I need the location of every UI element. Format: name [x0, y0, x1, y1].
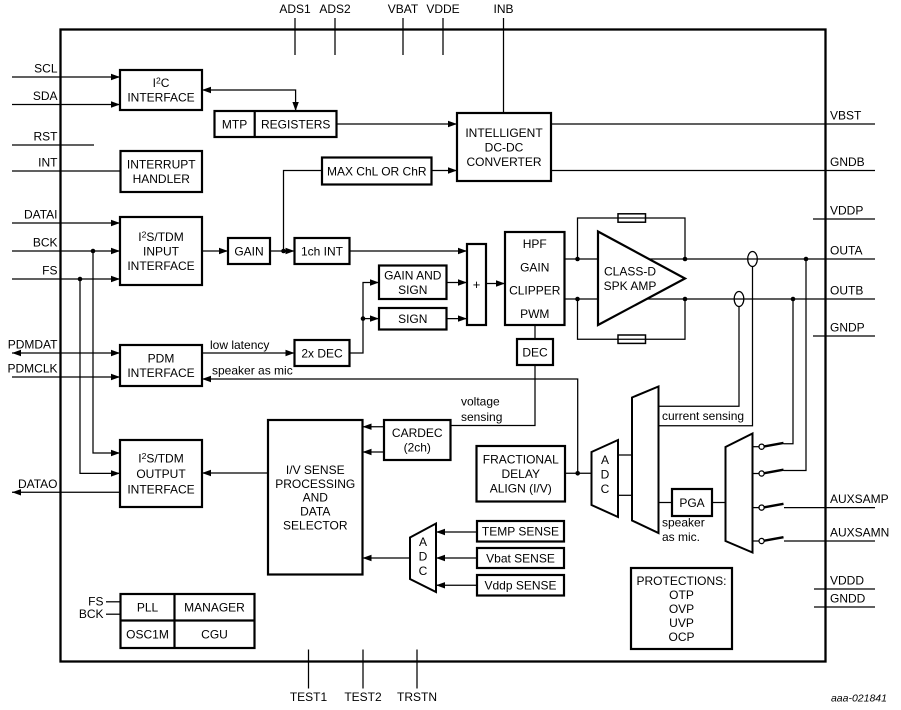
wire mux to PGA [659, 502, 673, 504]
svg-text:PDMCLK: PDMCLK [7, 362, 57, 376]
svg-text:A: A [601, 453, 609, 467]
svg-text:PDMDAT: PDMDAT [8, 338, 58, 352]
svg-text:GNDB: GNDB [830, 155, 865, 169]
svg-text:DEC: DEC [522, 345, 548, 359]
svg-text:INTERRUPT: INTERRUPT [127, 158, 196, 172]
svg-text:SDA: SDA [33, 89, 58, 103]
summing node + [467, 244, 486, 325]
svg-text:INTERFACE: INTERFACE [127, 259, 194, 273]
pin PDMCLK [7, 362, 120, 381]
svg-text:FS: FS [88, 594, 103, 608]
svg-text:speaker: speaker [662, 516, 705, 530]
wire summing node to HPF [486, 280, 505, 286]
svg-text:DC-DC: DC-DC [485, 140, 524, 154]
wire PWM to DEC [534, 325, 536, 339]
mux aux input selector [726, 434, 753, 553]
svg-text:GAIN: GAIN [234, 244, 263, 258]
svg-text:VDDD: VDDD [830, 574, 864, 588]
svg-text:1ch INT: 1ch INT [301, 244, 344, 258]
svg-text:BCK: BCK [79, 607, 104, 621]
svg-text:Vbat SENSE: Vbat SENSE [486, 551, 555, 565]
svg-text:SELECTOR: SELECTOR [283, 518, 348, 532]
pin ADS1 [279, 2, 311, 55]
wire feedback bottom [578, 297, 688, 340]
svg-text:PROTECTIONS:: PROTECTIONS: [636, 574, 726, 588]
adc U2 (sense ADC) [410, 524, 436, 593]
svg-text:SCL: SCL [34, 62, 58, 76]
svg-text:DATAI: DATAI [24, 208, 58, 222]
svg-text:INTELLIGENT: INTELLIGENT [465, 126, 543, 140]
wire FS to output interface [78, 277, 120, 477]
svg-text:I/V SENSE: I/V SENSE [286, 463, 345, 477]
block PGA [672, 489, 712, 516]
wire DEC to CARDEC (voltage sensing) [451, 365, 536, 426]
resistor feedback top [618, 214, 646, 222]
pin GNDD [814, 592, 875, 608]
svg-text:CGU: CGU [201, 628, 228, 642]
block interrupt handler [121, 151, 203, 192]
svg-text:aaa-021841: aaa-021841 [831, 693, 887, 705]
svg-text:VBST: VBST [830, 109, 862, 123]
label speaker as mic. [662, 516, 705, 545]
wire OUTA tap to switch 2 [784, 257, 809, 471]
svg-text:OUTA: OUTA [830, 244, 862, 258]
pin GNDP [813, 321, 875, 337]
block fractional delay align [477, 446, 566, 502]
block intelligent DC-DC converter [457, 113, 551, 181]
svg-text:OVP: OVP [669, 602, 694, 616]
wire PGA to aux mux [712, 502, 726, 504]
pin FS (PLL) [88, 594, 120, 608]
svg-text:DELAY: DELAY [502, 467, 540, 481]
pin GNDB [551, 155, 875, 171]
svg-text:sensing: sensing [461, 410, 502, 424]
wire CARDEC to I/V sense top [363, 424, 385, 430]
pin INB [493, 2, 513, 113]
svg-text:FRACTIONAL: FRACTIONAL [483, 453, 559, 467]
wire current sense OUTA [659, 252, 758, 426]
svg-text:AUXSAMP: AUXSAMP [830, 492, 889, 506]
pin TRSTN [397, 650, 437, 705]
wire I2S input to GAIN [202, 248, 228, 254]
wire CARDEC to I/V sense bottom [363, 449, 385, 455]
svg-text:CONVERTER: CONVERTER [466, 155, 541, 169]
pin DATAO [12, 477, 120, 496]
label current sensing [662, 409, 744, 423]
block TEMP SENSE [477, 521, 564, 542]
svg-text:CLASS-D: CLASS-D [604, 265, 656, 279]
svg-text:current sensing: current sensing [662, 409, 744, 423]
block 1ch INT [295, 238, 350, 264]
wire feedback top [578, 218, 688, 261]
svg-text:OSC1M: OSC1M [126, 628, 169, 642]
wire I/V sense to output interface [202, 470, 268, 476]
block DEC [517, 339, 553, 365]
wire I2C to REGISTERS [202, 87, 299, 111]
svg-text:MTP: MTP [222, 118, 247, 132]
svg-text:DATAO: DATAO [18, 477, 58, 491]
svg-text:CARDEC: CARDEC [392, 426, 443, 440]
block Vbat SENSE [477, 548, 564, 568]
svg-text:low latency: low latency [210, 338, 269, 352]
wire OUTB tap to switch 1 [784, 297, 796, 444]
block protections OTP OVP UVP OCP [631, 568, 732, 649]
svg-text:OUTPUT: OUTPUT [136, 467, 186, 481]
block I2C interface [120, 70, 202, 110]
svg-text:VDDE: VDDE [426, 2, 459, 16]
svg-text:TEST2: TEST2 [344, 690, 382, 704]
wire ADC to mux top [618, 454, 632, 456]
svg-text:Vddp SENSE: Vddp SENSE [484, 579, 556, 593]
svg-text:SIGN: SIGN [398, 283, 427, 297]
svg-text:INB: INB [493, 2, 513, 16]
svg-text:SIGN: SIGN [398, 312, 427, 326]
svg-text:OUTB: OUTB [830, 284, 863, 298]
wire REGISTERS to DC-DC [337, 121, 458, 127]
svg-text:DATA: DATA [300, 504, 330, 518]
svg-text:UVP: UVP [669, 616, 694, 630]
pin SDA [12, 89, 120, 108]
wire sense ADC to I/V sense [363, 555, 411, 561]
pin VBST [551, 109, 875, 125]
svg-text:speaker as mic: speaker as mic [212, 364, 293, 378]
pin AUXSAMN [784, 526, 889, 542]
block MTP / REGISTERS [215, 111, 337, 137]
svg-text:BCK: BCK [33, 236, 58, 250]
pin TEST2 [344, 650, 382, 705]
pin AUXSAMP [784, 492, 889, 508]
wire SIGN to summing node [447, 315, 468, 321]
switch S3 [753, 504, 784, 510]
svg-text:AUXSAMN: AUXSAMN [830, 526, 889, 540]
wire node to SIGN [361, 315, 379, 321]
svg-text:HPF: HPF [523, 237, 547, 251]
mux current/voltage selector [632, 387, 659, 534]
svg-text:PROCESSING: PROCESSING [275, 477, 355, 491]
wire HPF to amp input A [565, 257, 599, 262]
svg-text:TEST1: TEST1 [290, 690, 328, 704]
wire Vddp SENSE to ADC [436, 582, 477, 588]
wire 2x DEC to SIGN blocks [350, 279, 380, 353]
wire 1ch node to MAX ChL OR ChR [281, 171, 322, 254]
svg-text:MANAGER: MANAGER [184, 601, 245, 615]
pin VDDE [426, 2, 459, 55]
svg-text:ADS1: ADS1 [279, 2, 311, 16]
wire 1ch INT to summing node [350, 248, 468, 254]
svg-text:INTERFACE: INTERFACE [127, 366, 194, 380]
svg-text:C: C [419, 564, 428, 578]
pin DATAI [12, 208, 120, 227]
svg-text:MAX ChL OR ChR: MAX ChL OR ChR [327, 164, 427, 178]
block I2S/TDM output interface [120, 440, 202, 507]
switch S1 [753, 443, 784, 449]
chip boundary [61, 30, 826, 662]
pin BCK [12, 236, 120, 255]
pin INT [12, 156, 121, 172]
svg-text:REGISTERS: REGISTERS [261, 118, 330, 132]
svg-text:ADS2: ADS2 [319, 2, 351, 16]
wire TEMP SENSE to ADC [436, 529, 477, 535]
block PDM interface [120, 345, 202, 386]
wire ADC to mux bottom [618, 494, 632, 496]
switch S4 [753, 537, 784, 543]
svg-text:PDM: PDM [148, 352, 175, 366]
svg-text:INT: INT [38, 156, 58, 170]
block GAIN [228, 238, 270, 264]
block GAIN AND SIGN [379, 266, 447, 300]
block 2x DEC [295, 340, 350, 366]
svg-text:D: D [601, 468, 610, 482]
svg-text:CLIPPER: CLIPPER [509, 284, 561, 298]
svg-text:FS: FS [42, 264, 57, 278]
svg-text:TEMP SENSE: TEMP SENSE [482, 525, 559, 539]
pin ADS2 [319, 2, 351, 55]
block SIGN [379, 308, 447, 330]
wire BCK to output interface [91, 249, 120, 457]
svg-text:TRSTN: TRSTN [397, 690, 437, 704]
wire Vbat SENSE to ADC [436, 555, 477, 561]
pin PDMDAT [8, 338, 120, 357]
svg-text:GAIN AND: GAIN AND [384, 268, 442, 282]
pin TEST1 [290, 650, 328, 705]
pin FS [12, 264, 120, 283]
svg-text:GAIN: GAIN [520, 260, 549, 274]
label aaa-021841 [831, 693, 887, 705]
wire GAIN to 1ch INT [270, 248, 295, 254]
svg-text:as mic.: as mic. [662, 530, 700, 544]
svg-text:I2​C: I2​C [153, 76, 170, 91]
svg-text:D: D [419, 550, 428, 564]
svg-text:AND: AND [303, 491, 329, 505]
block I2S/TDM input interface [120, 217, 202, 285]
block MAX ChL OR ChR [322, 158, 432, 185]
pin SCL [12, 62, 120, 81]
svg-text:GNDP: GNDP [830, 321, 865, 335]
adc U1 (I/V ADC) [592, 440, 619, 517]
svg-text:INPUT: INPUT [143, 244, 180, 258]
svg-text:INTERFACE: INTERFACE [127, 482, 194, 496]
svg-text:INTERFACE: INTERFACE [127, 91, 194, 105]
wire PDM to 2x DEC (low latency) [202, 338, 295, 356]
pin BCK (PLL) [79, 607, 121, 621]
svg-text:SPK AMP: SPK AMP [604, 279, 657, 293]
wire HPF to amp input B [565, 297, 599, 302]
switch S2 [753, 470, 784, 476]
pin RST [12, 130, 94, 146]
svg-text:PGA: PGA [679, 496, 704, 510]
svg-text:2x DEC: 2x DEC [301, 346, 343, 360]
svg-text:PWM: PWM [520, 307, 549, 321]
op-amp class-D speaker amplifier [598, 232, 685, 326]
wire current sense OUTB [659, 292, 744, 407]
svg-text:OTP: OTP [669, 588, 694, 602]
block HPF GAIN CLIPPER PWM [505, 232, 565, 325]
svg-text:C: C [601, 482, 610, 496]
svg-text:RST: RST [34, 130, 59, 144]
svg-text:OCP: OCP [668, 630, 694, 644]
block CARDEC (2ch) [384, 420, 451, 460]
wire GAIN AND SIGN to summing node [447, 279, 468, 285]
resistor feedback bottom [618, 335, 646, 343]
wire speaker as mic return [202, 364, 578, 474]
svg-text:voltage: voltage [461, 395, 500, 409]
pin OUTA [649, 244, 875, 260]
svg-text:+: + [473, 277, 481, 292]
wire fractional delay to ADC [565, 471, 592, 476]
block Vddp SENSE [477, 575, 564, 596]
svg-text:ALIGN (I/V): ALIGN (I/V) [490, 482, 552, 496]
svg-text:VDDP: VDDP [830, 204, 863, 218]
pin VBAT [388, 2, 419, 55]
pin VDDD [814, 574, 875, 590]
pin OUTB [647, 284, 875, 300]
svg-text:(2ch): (2ch) [404, 441, 431, 455]
svg-text:VBAT: VBAT [388, 2, 419, 16]
svg-text:GNDD: GNDD [830, 592, 866, 606]
block I/V sense processing and data selector [268, 420, 363, 575]
svg-text:HANDLER: HANDLER [133, 172, 191, 186]
pin VDDP [813, 204, 875, 220]
wire MAX ChL OR ChR to DC-DC [432, 167, 458, 173]
svg-text:PLL: PLL [137, 601, 159, 615]
svg-text:A: A [419, 535, 427, 549]
block PLL / MANAGER / OSC1M / CGU [121, 594, 255, 648]
